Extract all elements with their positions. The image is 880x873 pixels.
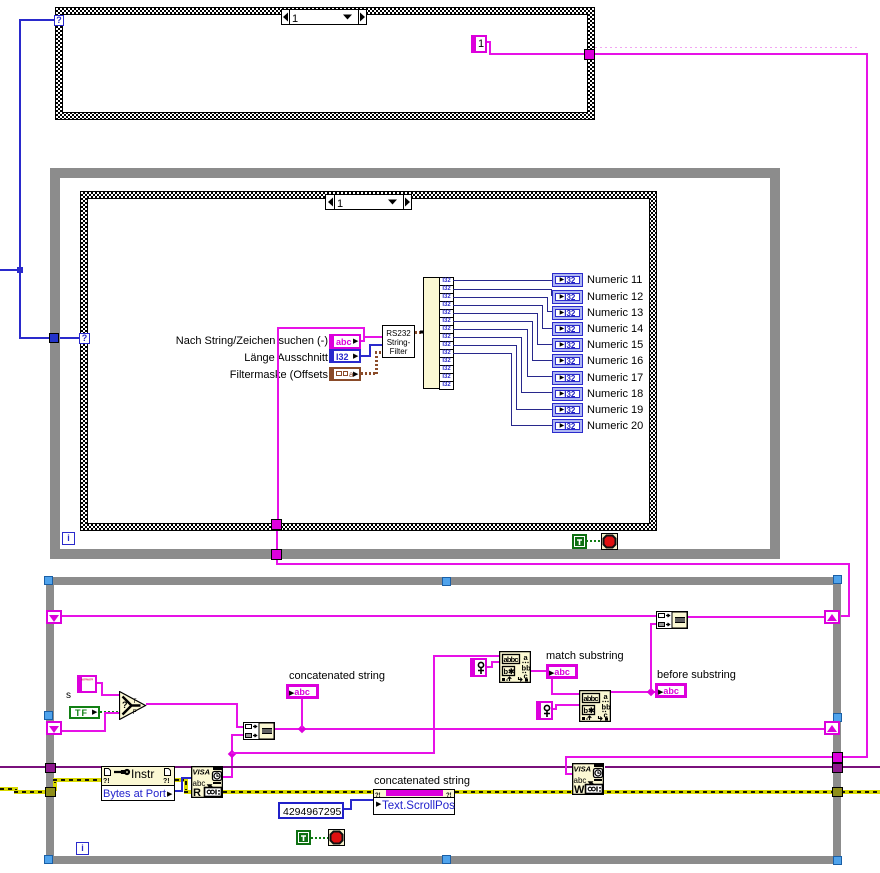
iteration terminal i (bottom loop) [76,842,89,855]
indicator: Numeric 17 [552,371,583,385]
loop condition terminal stop (middle loop) [601,533,618,550]
label: s [66,690,71,702]
control terminal: string (abc) [329,334,361,349]
node: wire junction (concatenated string) [297,724,307,734]
wire: into VISA write [565,773,573,775]
wire: down to concat1 top [236,703,238,728]
wire: unbundle out 4 to Numeric 14 [453,305,542,306]
wire: T to stop (middle, green dotted) [586,540,601,542]
tunnel purple right [832,763,843,773]
wire: I32 jog up [369,344,371,357]
wire: select out [146,703,238,705]
match pattern 1 [499,651,531,683]
iteration terminal i (middle loop) [62,532,75,545]
wire: match1 out to indicator [531,670,546,672]
wire: into select top [101,694,119,696]
svg-text:abbc: abbc [504,655,519,664]
svg-text:VISA: VISA [193,768,211,777]
indicator: Numeric 20 [552,419,583,433]
wire: concat1 out to right SR2 [275,728,826,730]
error wire from left [0,787,16,791]
tunnel (cyan, left-middle) [44,711,53,720]
wire: RS232 output (brown) [415,331,421,334]
wire: concat2 out to right SR1 [686,616,826,618]
wire: down to shift register [848,563,850,616]
tunnel (cyan, bottom-left corner) [44,855,53,864]
numeric constant 4294967295 [278,802,344,819]
shift register left 1 (down arrow) [46,610,62,624]
error wire to property node [53,778,102,782]
wire: CR const 1 jog [491,661,493,668]
wire: before substring up to concat2 [650,624,652,690]
wire: unbundle out 1 to Numeric 11 [453,280,552,281]
tunnel magenta loop bottom [271,549,282,560]
wire: CR const 1 stub [487,666,493,668]
indicator: before substring [655,683,687,698]
tunnel olive left [45,787,56,797]
wire: string const 1 hook [487,41,491,43]
control terminal: cluster (Filtermaske) [329,367,361,381]
wire: into match2 second input [555,704,579,706]
wire: selector vertical [19,19,21,339]
wire: into concat2 bottom [650,623,656,625]
wire: unbundle out 5 to Numeric 15 [453,313,537,314]
svg-text:F: F [133,709,137,716]
error wire into VISA read [184,790,191,794]
indicator: Numeric 13 [552,306,583,320]
label: Laenge Ausschnitt [210,352,328,364]
tunnel (cyan, right-middle) [833,713,842,722]
label: concatenated string (property) [374,775,470,787]
loop condition terminal stop (bottom loop) [328,829,345,846]
indicator: Numeric 18 [552,387,583,401]
wire: bytes into VISA read [181,777,191,779]
unbundle node (cluster to I32s) [423,277,440,389]
concatenate strings 2 [656,611,688,629]
tunnel (cyan, top-left corner) [44,576,53,585]
wire: string const 1 to tunnel [489,53,585,55]
error wire to right edge [841,790,880,794]
error wire down [184,779,188,793]
indicator: Numeric 11 [552,273,583,287]
wire: string branch left [279,327,365,329]
tunnel magenta case bottom [271,519,282,530]
error wire jog up [53,780,57,791]
node: wire junction (read buffer) [227,749,237,759]
wire: unbundle out 2 to Numeric 12 [453,289,551,290]
wire: cluster control to RS232 (brown) [361,372,377,375]
indicator: Numeric 16 [552,354,583,368]
svg-text:b✱: b✱ [584,706,596,715]
wire: read buffer up to match pattern [433,655,435,754]
wire: CR const 2 jog [555,704,557,710]
VISA Read [191,766,223,798]
concatenate strings 1 [243,722,275,740]
wire: into bottom loop right tunnel [841,756,868,758]
svg-text:1: 1 [337,198,343,210]
label: Nach String/Zeichen suchen (-) [140,335,328,347]
wire: faint companion dotted line [595,47,860,48]
while loop (middle) border [50,168,780,178]
case selector label "1" (middle structure) [325,194,412,210]
tunnel (cyan, bottom-right corner) [833,856,842,865]
error wire [14,787,18,793]
string constant (CR) 1 [470,658,487,677]
wire: into concat1 top [236,726,244,728]
wire: unbundle out 9 to Numeric 19 [453,345,516,346]
wire: into match pattern 2 [551,693,579,695]
wire: into match1 second input [491,661,499,663]
wire: unbundle out 7 to Numeric 17 [453,329,527,330]
svg-text:T: T [133,698,137,705]
wire: into right shift register 1 [841,615,850,617]
tunnel blue [49,333,59,343]
label: Filtermaske (Offsets [200,369,328,381]
tunnel (cyan, top-right corner) [833,575,842,584]
tunnel (cyan, bottom-middle) [442,855,451,864]
node: wire junction (blue) [17,267,23,273]
wire: property node to VISA read [175,766,192,768]
wire: abc to RS232 [363,336,382,338]
wire: tunnel to right vertical [595,53,866,55]
tunnel olive right [832,787,843,797]
error wire to tunnel [14,790,46,794]
wire: string branch up [363,327,365,336]
wire: empty string down [101,682,103,696]
case structure (middle) border [80,191,657,531]
wire: into match pattern 1 [433,655,499,657]
case selector label "1" (top structure) [281,9,367,25]
wire: long vertical right side [866,53,868,758]
string constant (empty) [77,675,97,693]
select function [119,691,147,720]
shift register right 2 (up arrow) [824,721,840,735]
indicator: Numeric 19 [552,403,583,417]
svg-text:b✱: b✱ [504,667,516,676]
wire: selector from left edge [0,269,19,271]
tunnel (cyan, top-middle) [442,577,451,586]
indicator: match substring [546,664,578,679]
wire: unbundle out 3 to Numeric 13 [453,297,547,298]
property node: concatenated string Text.ScrollPos [373,789,455,815]
wire: VISA read buffer out [223,776,233,778]
while loop (bottom) border [46,577,841,585]
wire: below loop tunnel [276,560,278,565]
indicator: Numeric 14 [552,322,583,336]
wire: VISA resource to right edge [841,766,880,768]
wire: tunnel to tunnel vertical [276,531,278,550]
tunnel magenta write buffer [832,752,843,763]
match pattern 2 [579,690,611,722]
svg-text:abbc: abbc [584,694,599,703]
wire: branch down [551,678,553,695]
label: before substring [657,669,736,681]
error wire VISA read to tunnel [223,790,833,794]
wire: VISA read to VISA write [223,766,573,768]
wire: abc control stub [361,340,365,342]
shift register left 2 (down arrow) [46,721,62,735]
wire: into concat1 bottom [231,734,244,736]
case selector terminal "?" (middle structure) [79,333,90,344]
wire: left SR1 to concat2 [62,615,656,617]
wire: into select f [104,712,119,714]
control terminal: I32 [329,349,361,363]
tunnel magenta [584,49,595,60]
boolean constant TF [69,706,100,719]
wire: read buffer right [231,752,435,754]
arrow into unbundle [419,326,435,338]
error wire property out [175,778,185,782]
string constant "1" [471,35,487,53]
indicator: Numeric 15 [552,338,583,352]
property node: VISA Instr / Bytes at Port [101,766,175,801]
wire: empty string const stub [97,682,102,684]
wire: CR const 2 stub [552,708,557,710]
indicator: Numeric 12 [552,290,583,304]
wire: I32 to RS232 [369,344,382,346]
wire: string const 1 down [489,41,491,55]
case structure (top) border [55,7,595,120]
svg-text:1: 1 [292,13,298,25]
subVI: RS232 String-Filter [382,325,415,358]
boolean constant T (middle loop) [572,534,587,549]
wire: selector to middle case ? [19,337,80,339]
boolean constant T (bottom loop) [296,830,311,845]
wire: across to right vertical [276,563,850,565]
wire: bytes jog up [181,777,183,792]
wire: unbundle out 10 to Numeric 20 [453,353,511,354]
node: wire junction (before substring) [646,687,656,697]
wire: U32 const stub [344,808,352,810]
wire: string branch down to tunnel [277,327,279,520]
wire: VISA write to tunnel [605,766,833,768]
string constant (CR) 2 [536,701,553,720]
wire: unbundle out 6 to Numeric 16 [453,321,532,322]
wire: VISA resource from left [0,766,46,768]
wire: up to local variable [301,698,303,728]
wire: left SR2 out [62,730,106,732]
VISA Write [572,763,604,795]
wire: TF to select (green dotted) [100,711,119,713]
wire: I32 control stub [361,355,371,357]
wire: T to stop (bottom, green dotted) [311,837,328,839]
svg-text:W: W [574,784,585,795]
svg-text:R: R [193,787,201,798]
wire: bytes at port out [175,790,182,792]
tunnel purple left [45,763,56,773]
local variable: concatenated string [289,670,385,682]
svg-text:?: ? [122,700,128,710]
wire: write buffer from right tunnel [566,756,834,758]
svg-text:VISA: VISA [574,765,592,774]
wire: read buffer up [231,734,233,778]
shift register right 1 (up arrow) [824,610,840,624]
wire: write buffer down [565,756,567,775]
wire: up to select f input [104,713,106,732]
wire: match2 before substring out [609,691,655,693]
wire: U32 jog up [350,799,352,810]
wire: unbundle out 8 to Numeric 18 [453,337,521,338]
wire: VISA resource to property node [55,766,102,768]
wire: selector to top case ? [19,19,55,21]
case selector terminal "?" (top structure) [54,15,64,26]
label: match substring [546,650,624,662]
wire: into Text.ScrollPos [350,799,373,801]
wire: abc control jog [363,336,365,342]
